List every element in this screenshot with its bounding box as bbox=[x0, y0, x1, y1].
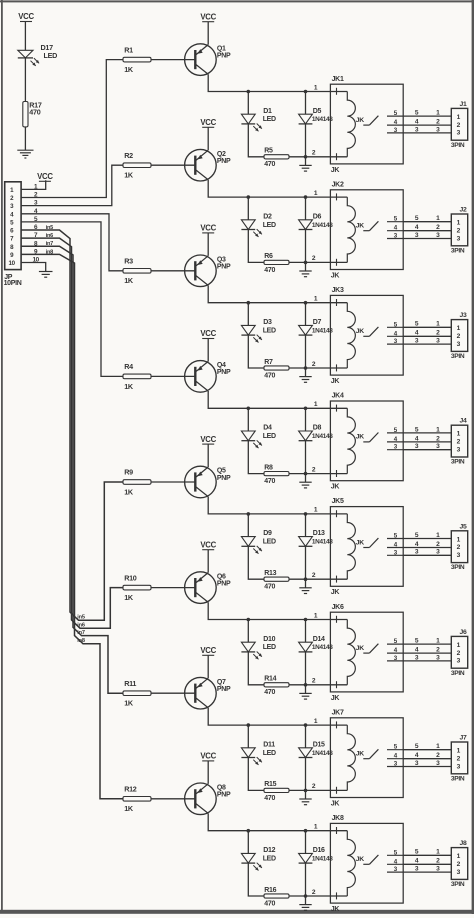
svg-text:LED: LED bbox=[263, 855, 276, 862]
wire bus to D10 bbox=[247, 620, 249, 643]
wire bus to D4 bbox=[247, 408, 249, 431]
svg-text:JK: JK bbox=[331, 272, 340, 279]
svg-text:Q5: Q5 bbox=[217, 468, 226, 475]
wire JK4 pin 5 to J4 pin 1 bbox=[403, 426, 451, 433]
wire JK6 pin 4 to J6 pin 2 bbox=[403, 647, 451, 654]
wire node 2 to JK4 pin 2 bbox=[306, 473, 331, 475]
transistor Q4 PNP bbox=[185, 361, 231, 393]
junction node D9 anode bbox=[247, 512, 251, 516]
LED D4 bbox=[241, 425, 276, 449]
JK7 pin 2 label bbox=[312, 783, 316, 790]
wire D14 to node 2 bbox=[305, 652, 307, 685]
svg-text:VCC: VCC bbox=[200, 224, 216, 233]
relay JK3 bbox=[330, 287, 403, 385]
wire bus to D8 bbox=[305, 408, 307, 431]
JK5 pin 1 label bbox=[314, 507, 318, 514]
wire D10 to R14 bbox=[248, 652, 264, 685]
svg-text:LED: LED bbox=[263, 644, 276, 651]
svg-text:JK: JK bbox=[356, 117, 364, 124]
connector J6 3PIN bbox=[451, 629, 468, 677]
relay JK1 bbox=[330, 76, 403, 174]
diode D6 1N4148 bbox=[299, 213, 334, 229]
resistor R2 bbox=[123, 151, 151, 180]
resistor R17 bbox=[23, 100, 42, 127]
wire D5 to node 2 bbox=[305, 124, 307, 157]
wire JK8 pin 4 to J8 pin 2 bbox=[403, 858, 451, 865]
JK8 pin 2 label bbox=[312, 889, 316, 896]
wire VCC to Q6 emitter bbox=[207, 550, 209, 573]
wire D2 to R6 bbox=[248, 230, 264, 263]
svg-text:VCC: VCC bbox=[200, 752, 216, 761]
connector J7 3PIN bbox=[451, 735, 468, 783]
wire Q2 collector bus bbox=[208, 180, 330, 197]
wire D6 to node 2 bbox=[305, 230, 307, 263]
svg-text:470: 470 bbox=[264, 584, 275, 591]
junction node D14 cathode bbox=[304, 618, 308, 622]
resistor R7 bbox=[264, 359, 289, 380]
net label in6 (connector end) bbox=[46, 233, 54, 239]
resistor R3 bbox=[123, 257, 151, 286]
svg-text:LED: LED bbox=[263, 433, 276, 440]
svg-text:VCC: VCC bbox=[18, 12, 34, 21]
LED D2 bbox=[241, 213, 276, 237]
junction node D3 anode bbox=[247, 301, 251, 305]
wire node 2 to JK3 pin 2 bbox=[306, 367, 331, 369]
svg-text:JK5: JK5 bbox=[332, 498, 344, 505]
wire R12 to Q8 base bbox=[151, 798, 195, 800]
JK4 pin 2 label bbox=[312, 466, 316, 473]
wire Q1 collector bus bbox=[208, 74, 330, 91]
resistor R14 bbox=[264, 676, 289, 697]
svg-text:VCC: VCC bbox=[200, 118, 216, 127]
ground (channel 4) bbox=[299, 474, 311, 488]
svg-text:PNP: PNP bbox=[217, 686, 231, 693]
net label in8 (fan end) bbox=[77, 638, 85, 644]
LED D12 bbox=[241, 847, 276, 871]
svg-text:D7: D7 bbox=[313, 319, 322, 326]
connector JP 10PIN bbox=[4, 182, 22, 287]
svg-text:1K: 1K bbox=[124, 276, 134, 285]
wire VCC to Q3 emitter bbox=[207, 233, 209, 256]
resistor R1 bbox=[123, 45, 151, 74]
net label in7 (fan end) bbox=[77, 630, 85, 636]
junction node D8 cathode bbox=[304, 407, 308, 411]
wire bus to D16 bbox=[305, 831, 307, 854]
resistor R6 bbox=[264, 253, 289, 274]
relay JK4 bbox=[330, 393, 403, 491]
ground (channel 8) bbox=[299, 896, 311, 910]
JK2 pin 1 label bbox=[314, 190, 318, 197]
resistor R9 bbox=[123, 468, 151, 497]
svg-text:JK: JK bbox=[356, 223, 364, 230]
net label in8 (connector end) bbox=[46, 249, 54, 255]
junction node 2 bbox=[304, 155, 308, 159]
ground (JP pin10) bbox=[39, 272, 53, 278]
resistor R8 bbox=[264, 464, 289, 485]
svg-text:470: 470 bbox=[264, 900, 275, 907]
svg-text:D12: D12 bbox=[263, 847, 275, 854]
svg-text:Q1: Q1 bbox=[217, 45, 226, 52]
diode D15 1N4148 bbox=[299, 741, 334, 757]
svg-text:PNP: PNP bbox=[217, 580, 231, 587]
svg-text:3PIN: 3PIN bbox=[451, 247, 465, 254]
wire R8 to node 2 bbox=[289, 473, 306, 475]
svg-text:Q8: Q8 bbox=[217, 785, 226, 792]
svg-text:JK6: JK6 bbox=[332, 604, 344, 611]
svg-text:D10: D10 bbox=[263, 636, 275, 643]
relay JK2 bbox=[330, 181, 403, 279]
wire R5 to node 2 bbox=[289, 156, 306, 158]
LED D3 bbox=[241, 319, 276, 343]
wire JK2 pin 5 to J2 pin 1 bbox=[403, 215, 451, 222]
wire JK7 pin 4 to J7 pin 2 bbox=[403, 752, 451, 759]
svg-text:JK: JK bbox=[331, 589, 340, 596]
junction node D7 cathode bbox=[304, 301, 308, 305]
resistor R10 bbox=[123, 573, 151, 602]
wire VCC to Q7 emitter bbox=[207, 655, 209, 678]
junction node D11 anode bbox=[247, 723, 251, 727]
wire JP pin10 to ground bbox=[21, 263, 46, 272]
wire JK5 pin 3 to J5 pin 3 bbox=[403, 549, 451, 556]
ground (channel 7) bbox=[299, 790, 311, 804]
junction node 2 bbox=[304, 577, 308, 581]
svg-text:in6: in6 bbox=[46, 233, 54, 239]
wire Q3 collector bus bbox=[208, 285, 330, 302]
svg-text:JK: JK bbox=[331, 484, 340, 491]
wire VCC to Q2 emitter bbox=[207, 127, 209, 150]
svg-text:PNP: PNP bbox=[217, 158, 231, 165]
wire node 2 to JK6 pin 2 bbox=[306, 684, 331, 686]
svg-text:JK: JK bbox=[356, 434, 364, 441]
LED D9 bbox=[241, 530, 276, 554]
wire Q4 collector bus bbox=[208, 391, 330, 408]
ground (D17 branch) bbox=[17, 150, 33, 158]
svg-text:Q6: Q6 bbox=[217, 573, 226, 580]
transistor Q5 PNP bbox=[185, 466, 231, 498]
connector J5 3PIN bbox=[451, 523, 468, 571]
svg-text:VCC: VCC bbox=[200, 540, 216, 549]
JP pin numbers bbox=[32, 184, 39, 264]
svg-text:R16: R16 bbox=[264, 887, 276, 894]
wire R3 to Q3 base bbox=[151, 270, 195, 272]
wire JK2 pin 4 to J2 pin 2 bbox=[403, 224, 451, 231]
wire bus to D6 bbox=[305, 197, 307, 220]
transistor Q1 PNP bbox=[185, 44, 231, 76]
svg-text:LED: LED bbox=[263, 222, 276, 229]
svg-text:J1: J1 bbox=[460, 101, 467, 108]
wire D16 to node 2 bbox=[305, 863, 307, 896]
svg-text:LED: LED bbox=[263, 539, 276, 546]
wire VCC to Q4 emitter bbox=[207, 339, 209, 362]
wire bus to D15 bbox=[305, 725, 307, 748]
JK3 pin 2 label bbox=[312, 361, 316, 368]
svg-text:1K: 1K bbox=[124, 593, 134, 602]
svg-text:PNP: PNP bbox=[217, 475, 231, 482]
wire R7 to node 2 bbox=[289, 367, 306, 369]
svg-text:in5: in5 bbox=[77, 615, 85, 621]
svg-text:J5: J5 bbox=[460, 523, 467, 530]
wire JP pin3 to R2 bbox=[21, 165, 123, 205]
wire R9 to Q5 base bbox=[151, 481, 195, 483]
svg-text:3PIN: 3PIN bbox=[451, 881, 465, 888]
wire R13 to node 2 bbox=[289, 578, 306, 580]
junction node D2 anode bbox=[247, 195, 251, 199]
power port VCC (Q5) bbox=[200, 435, 216, 444]
wire JK3 pin 3 to J3 pin 3 bbox=[403, 338, 451, 345]
svg-text:J7: J7 bbox=[460, 735, 467, 742]
svg-text:PNP: PNP bbox=[217, 52, 231, 59]
wire R10 to Q6 base bbox=[151, 587, 195, 589]
svg-text:JK: JK bbox=[331, 695, 340, 702]
svg-text:J4: J4 bbox=[460, 418, 467, 425]
svg-text:JK2: JK2 bbox=[332, 181, 344, 188]
wire bus to D2 bbox=[247, 197, 249, 220]
resistor R13 bbox=[264, 570, 289, 591]
svg-text:in8: in8 bbox=[46, 249, 54, 255]
transistor Q8 PNP bbox=[185, 783, 231, 815]
wire VCC to Q1 emitter bbox=[207, 22, 209, 45]
svg-text:D11: D11 bbox=[263, 741, 275, 748]
svg-text:R7: R7 bbox=[264, 359, 273, 366]
svg-text:D5: D5 bbox=[313, 108, 322, 115]
power port VCC (Q8) bbox=[200, 752, 216, 761]
ground (channel 6) bbox=[299, 685, 311, 699]
net label in6 (fan end) bbox=[77, 623, 85, 629]
junction node D1 anode bbox=[247, 90, 251, 94]
svg-text:in7: in7 bbox=[77, 630, 85, 636]
svg-text:3PIN: 3PIN bbox=[451, 564, 465, 571]
wire D1 to R5 bbox=[248, 124, 264, 157]
junction node 2 bbox=[304, 683, 308, 687]
svg-text:VCC: VCC bbox=[200, 12, 216, 21]
junction node D6 cathode bbox=[304, 195, 308, 199]
svg-text:R2: R2 bbox=[124, 151, 133, 160]
svg-text:PNP: PNP bbox=[217, 264, 231, 271]
svg-text:D4: D4 bbox=[263, 425, 272, 432]
svg-text:3PIN: 3PIN bbox=[451, 459, 465, 466]
svg-text:JK: JK bbox=[356, 328, 364, 335]
svg-text:3PIN: 3PIN bbox=[451, 353, 465, 360]
svg-text:D6: D6 bbox=[313, 213, 322, 220]
wire R4 to Q4 base bbox=[151, 375, 195, 377]
junction node D10 anode bbox=[247, 618, 251, 622]
svg-text:R12: R12 bbox=[124, 785, 137, 794]
svg-text:R10: R10 bbox=[124, 573, 137, 582]
net label in5 (fan end) bbox=[77, 615, 85, 621]
svg-text:JK3: JK3 bbox=[332, 287, 344, 294]
svg-text:R11: R11 bbox=[124, 679, 136, 688]
wire node 2 to JK1 pin 2 bbox=[306, 156, 331, 158]
wire bus to D1 bbox=[247, 92, 249, 115]
JK1 pin 1 label bbox=[314, 84, 318, 91]
relay JK5 bbox=[330, 498, 403, 596]
JK3 pin 1 label bbox=[314, 296, 318, 303]
wire Q5 collector bus bbox=[208, 497, 330, 514]
connector J8 3PIN bbox=[451, 840, 468, 888]
JK5 pin 2 label bbox=[312, 572, 316, 579]
connector J1 3PIN bbox=[451, 101, 468, 149]
svg-text:JK: JK bbox=[331, 800, 340, 807]
svg-text:D8: D8 bbox=[313, 425, 322, 432]
wire bus to D9 bbox=[247, 514, 249, 537]
wire VCC to D17 anode bbox=[24, 22, 26, 51]
junction node 2 bbox=[304, 366, 308, 370]
JK1 pin 2 label bbox=[312, 150, 316, 157]
svg-text:JK7: JK7 bbox=[332, 709, 344, 716]
svg-text:D14: D14 bbox=[313, 636, 325, 643]
svg-text:3PIN: 3PIN bbox=[451, 670, 465, 677]
svg-text:R14: R14 bbox=[264, 676, 276, 683]
wire JP pin8 net in7 to R11 bbox=[21, 246, 123, 693]
wire D12 to R16 bbox=[248, 863, 264, 896]
svg-text:D15: D15 bbox=[313, 741, 325, 748]
JK2 pin 2 label bbox=[312, 255, 316, 262]
svg-text:470: 470 bbox=[264, 161, 275, 168]
wire D9 to R13 bbox=[248, 546, 264, 579]
JK6 pin 1 label bbox=[314, 612, 318, 619]
svg-text:10PIN: 10PIN bbox=[4, 280, 22, 287]
svg-text:1K: 1K bbox=[124, 487, 134, 496]
svg-text:470: 470 bbox=[264, 689, 275, 696]
svg-text:PNP: PNP bbox=[217, 792, 231, 799]
wire node 2 to JK8 pin 2 bbox=[306, 895, 331, 897]
wire JK8 pin 5 to J8 pin 1 bbox=[403, 849, 451, 856]
wire node 2 to JK7 pin 2 bbox=[306, 789, 331, 791]
svg-text:R8: R8 bbox=[264, 464, 273, 471]
resistor R12 bbox=[123, 785, 151, 814]
wire JP pin6 net in5 to R9 bbox=[21, 230, 123, 620]
wire JK5 pin 5 to J5 pin 1 bbox=[403, 532, 451, 539]
svg-text:Q2: Q2 bbox=[217, 151, 226, 158]
wire R15 to node 2 bbox=[289, 789, 306, 791]
wire D15 to node 2 bbox=[305, 758, 307, 791]
svg-text:1K: 1K bbox=[124, 699, 134, 708]
svg-text:VCC: VCC bbox=[37, 172, 53, 181]
junction node D12 anode bbox=[247, 829, 251, 833]
svg-text:in7: in7 bbox=[46, 241, 54, 247]
svg-text:J6: J6 bbox=[460, 629, 467, 636]
svg-text:R9: R9 bbox=[124, 468, 133, 477]
wire JK7 pin 3 to J7 pin 3 bbox=[403, 760, 451, 767]
diode D5 1N4148 bbox=[299, 108, 334, 124]
junction node D5 cathode bbox=[304, 90, 308, 94]
svg-text:470: 470 bbox=[29, 107, 40, 116]
svg-text:J8: J8 bbox=[460, 840, 467, 847]
power port VCC (JP) bbox=[37, 172, 53, 181]
junction node 2 bbox=[304, 894, 308, 898]
svg-text:in6: in6 bbox=[77, 623, 85, 629]
wire bus to D14 bbox=[305, 620, 307, 643]
svg-text:R3: R3 bbox=[124, 257, 133, 266]
svg-text:JK1: JK1 bbox=[332, 76, 344, 83]
junction node 2 bbox=[304, 789, 308, 793]
power port VCC (D17 branch) bbox=[18, 12, 34, 21]
svg-text:R5: R5 bbox=[264, 148, 273, 155]
wire JP pin1 to VCC bbox=[21, 180, 46, 189]
svg-text:1K: 1K bbox=[124, 65, 134, 74]
svg-text:R15: R15 bbox=[264, 781, 276, 788]
ground (channel 1) bbox=[299, 157, 311, 171]
wire Q7 collector bus bbox=[208, 708, 330, 725]
svg-text:D9: D9 bbox=[263, 530, 272, 537]
svg-text:R4: R4 bbox=[124, 362, 133, 371]
wire D4 to R8 bbox=[248, 441, 264, 474]
power port VCC (Q7) bbox=[200, 646, 216, 655]
svg-text:R6: R6 bbox=[264, 253, 273, 260]
wire JK2 pin 3 to J2 pin 3 bbox=[403, 232, 451, 239]
svg-text:JK: JK bbox=[331, 167, 340, 174]
wire JK6 pin 3 to J6 pin 3 bbox=[403, 654, 451, 661]
power port VCC (Q3) bbox=[200, 224, 216, 233]
svg-text:JK: JK bbox=[356, 856, 364, 863]
svg-text:PNP: PNP bbox=[217, 369, 231, 376]
connector J2 3PIN bbox=[451, 207, 468, 255]
svg-text:10: 10 bbox=[9, 260, 16, 267]
svg-text:J3: J3 bbox=[460, 312, 467, 319]
svg-text:J2: J2 bbox=[460, 207, 467, 214]
ground (channel 5) bbox=[299, 579, 311, 593]
net label in7 (connector end) bbox=[46, 241, 54, 247]
resistor R15 bbox=[264, 781, 289, 802]
junction node D13 cathode bbox=[304, 512, 308, 516]
wire JK1 pin 3 to J1 pin 3 bbox=[403, 126, 451, 133]
resistor R5 bbox=[264, 148, 289, 169]
wire JK3 pin 5 to J3 pin 1 bbox=[403, 321, 451, 328]
wire D7 to node 2 bbox=[305, 335, 307, 368]
wire JK1 pin 4 to J1 pin 2 bbox=[403, 119, 451, 126]
junction node 2 bbox=[304, 261, 308, 265]
wire node 2 to JK5 pin 2 bbox=[306, 578, 331, 580]
LED D1 bbox=[241, 108, 276, 132]
svg-text:in5: in5 bbox=[46, 225, 54, 231]
wire R17 to ground bbox=[24, 127, 26, 150]
svg-text:LED: LED bbox=[263, 327, 276, 334]
JK7 pin 1 label bbox=[314, 718, 318, 725]
wire R6 to node 2 bbox=[289, 261, 306, 263]
svg-text:JK4: JK4 bbox=[332, 393, 344, 400]
wire R1 to Q1 base bbox=[151, 59, 195, 61]
wire JK4 pin 3 to J4 pin 3 bbox=[403, 443, 451, 450]
svg-text:D3: D3 bbox=[263, 319, 272, 326]
resistor R11 bbox=[123, 679, 151, 708]
diode D16 1N4148 bbox=[299, 847, 334, 863]
diode D13 1N4148 bbox=[299, 530, 334, 546]
transistor Q2 PNP bbox=[185, 149, 231, 181]
svg-text:JK: JK bbox=[356, 645, 364, 652]
wire bus to D7 bbox=[305, 303, 307, 326]
svg-text:Q7: Q7 bbox=[217, 679, 226, 686]
ground (channel 2) bbox=[299, 262, 311, 276]
wire R14 to node 2 bbox=[289, 684, 306, 686]
wire JP pin2 to R1 bbox=[21, 60, 123, 198]
svg-text:JK: JK bbox=[356, 539, 364, 546]
wire VCC to Q5 emitter bbox=[207, 444, 209, 467]
svg-text:R1: R1 bbox=[124, 45, 133, 54]
diode D8 1N4148 bbox=[299, 425, 334, 441]
svg-text:3PIN: 3PIN bbox=[451, 775, 465, 782]
ground (channel 3) bbox=[299, 368, 311, 382]
svg-text:470: 470 bbox=[264, 795, 275, 802]
wire JK6 pin 5 to J6 pin 1 bbox=[403, 638, 451, 645]
diode D7 1N4148 bbox=[299, 319, 334, 335]
wire JK7 pin 5 to J7 pin 1 bbox=[403, 743, 451, 750]
power port VCC (Q1) bbox=[200, 12, 216, 21]
svg-text:D13: D13 bbox=[313, 530, 325, 537]
svg-text:JK: JK bbox=[331, 378, 340, 385]
wire Q8 collector bus bbox=[208, 813, 330, 830]
svg-text:1K: 1K bbox=[124, 382, 134, 391]
wire JP pin5 to R4 bbox=[21, 222, 123, 377]
